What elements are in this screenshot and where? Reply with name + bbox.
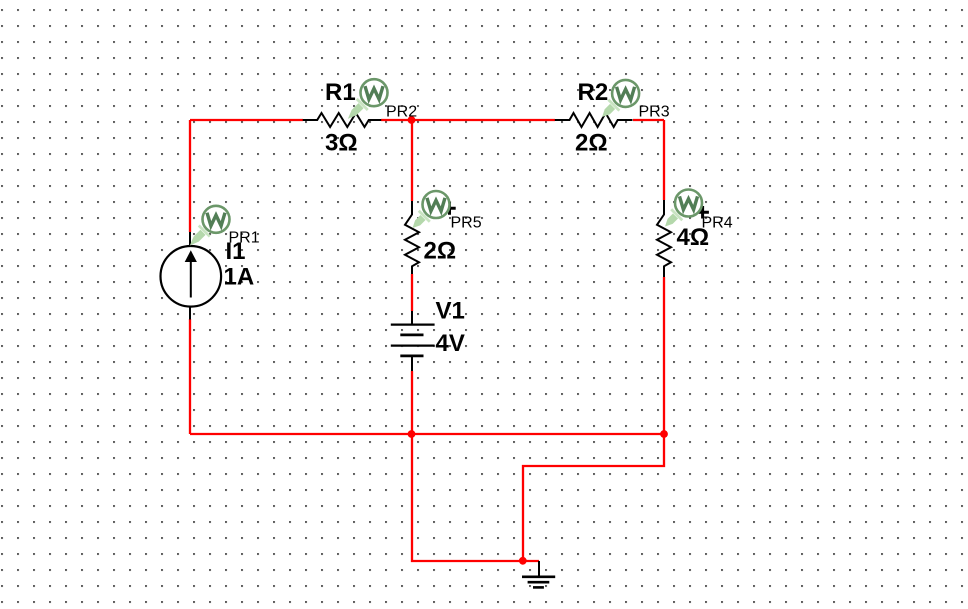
wire middle vertical to ground run [412,434,539,561]
svg-text:3Ω: 3Ω [325,130,358,157]
svg-text:PR2: PR2 [386,104,417,121]
wire right branch to ground [523,434,664,561]
svg-text:R2: R2 [578,79,609,106]
svg-text:2Ω: 2Ω [575,130,608,157]
wire top horizontal left of R1 [190,119,303,121]
probe PR5 [407,191,456,233]
battery V1 [391,311,435,371]
wire top horizontal between R1 and R2 [381,119,555,121]
svg-text:R1: R1 [325,79,356,106]
resistor R2 [555,113,633,127]
wire middle between resistor and battery [411,274,413,311]
probe PR3 [597,80,639,122]
wire left vertical lower [189,319,191,434]
junction node C bottom right [660,430,668,438]
wire right vertical above resistor R4 [663,120,665,200]
svg-text:2Ω: 2Ω [424,237,457,264]
wire top horizontal right of R2 [633,119,664,121]
probe PR1 [184,206,229,251]
current source I1 [161,232,222,320]
junction node A at top middle [408,116,416,124]
wire middle below battery [411,371,413,434]
resistor R4 right 4ohm [657,200,671,277]
wire right vertical below resistor R4 [663,277,665,434]
junction node B bottom middle [408,430,416,438]
wire left vertical upper [189,120,191,232]
svg-text:PR4: PR4 [702,215,733,232]
wire middle vertical above resistor R3 [411,120,413,201]
svg-text:4V: 4V [436,330,465,357]
svg-text:PR5: PR5 [451,215,482,232]
resistor R1 [303,113,382,127]
svg-text:PR1: PR1 [229,230,260,247]
probe PR2 [342,79,387,124]
svg-text:1A: 1A [224,263,255,290]
resistor R3 middle 2ohm [405,201,419,274]
svg-text:PR3: PR3 [639,104,670,121]
svg-text:V1: V1 [436,298,465,325]
junction node D at ground wire [519,557,527,565]
probe PR4 [660,190,709,232]
wire bottom horizontal node N2 [190,433,664,435]
ground [522,561,555,587]
